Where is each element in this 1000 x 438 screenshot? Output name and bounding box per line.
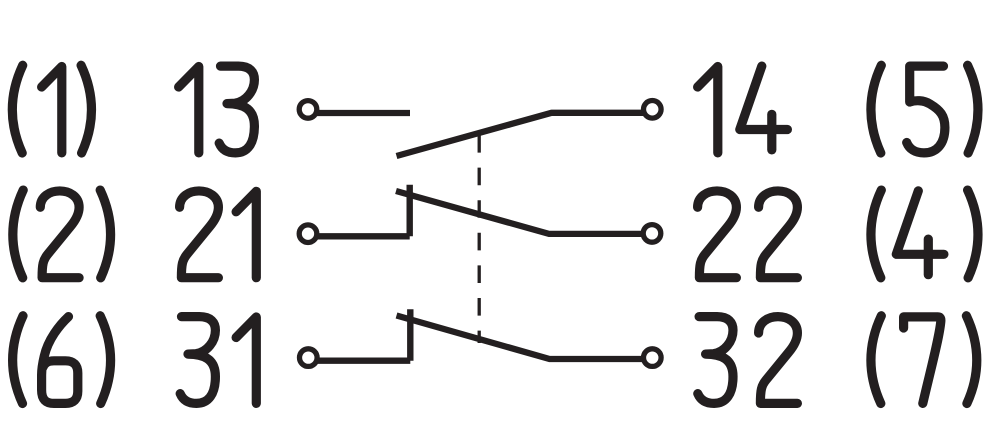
- wire: lead from terminal 13: [308, 110, 410, 116]
- terminal circle 22: [643, 225, 661, 243]
- label (6): [13, 316, 111, 404]
- pin label 32: [698, 317, 798, 404]
- wire: lead from terminal 31: [308, 358, 410, 364]
- terminal circle 32: [644, 349, 662, 367]
- label (7): [871, 316, 977, 404]
- NC contact post 31: [407, 309, 413, 360]
- pin label 22: [698, 191, 798, 278]
- wire: lead from terminal 21: [308, 233, 410, 239]
- label (2): [13, 190, 111, 278]
- terminal circle 31: [300, 349, 318, 367]
- pin label 14: [698, 66, 788, 153]
- label (4): [871, 190, 978, 278]
- NC contact blade 21-22 and wire to terminal 22: [396, 191, 648, 234]
- NO contact blade 13-14 and wire to terminal 14: [397, 113, 649, 156]
- NC contact post 21: [407, 185, 413, 237]
- label (1): [12, 65, 91, 153]
- terminal circle 21: [299, 225, 317, 243]
- terminal circle 13: [299, 101, 317, 119]
- terminal circle 14: [644, 101, 662, 119]
- pin label 21: [180, 191, 257, 278]
- mechanical linkage (dashed line): [478, 135, 481, 343]
- pin label 13: [179, 66, 255, 153]
- NC contact blade 31-32 and wire to terminal 32: [397, 316, 649, 360]
- label (5): [871, 65, 978, 153]
- pin label 31: [180, 317, 256, 404]
